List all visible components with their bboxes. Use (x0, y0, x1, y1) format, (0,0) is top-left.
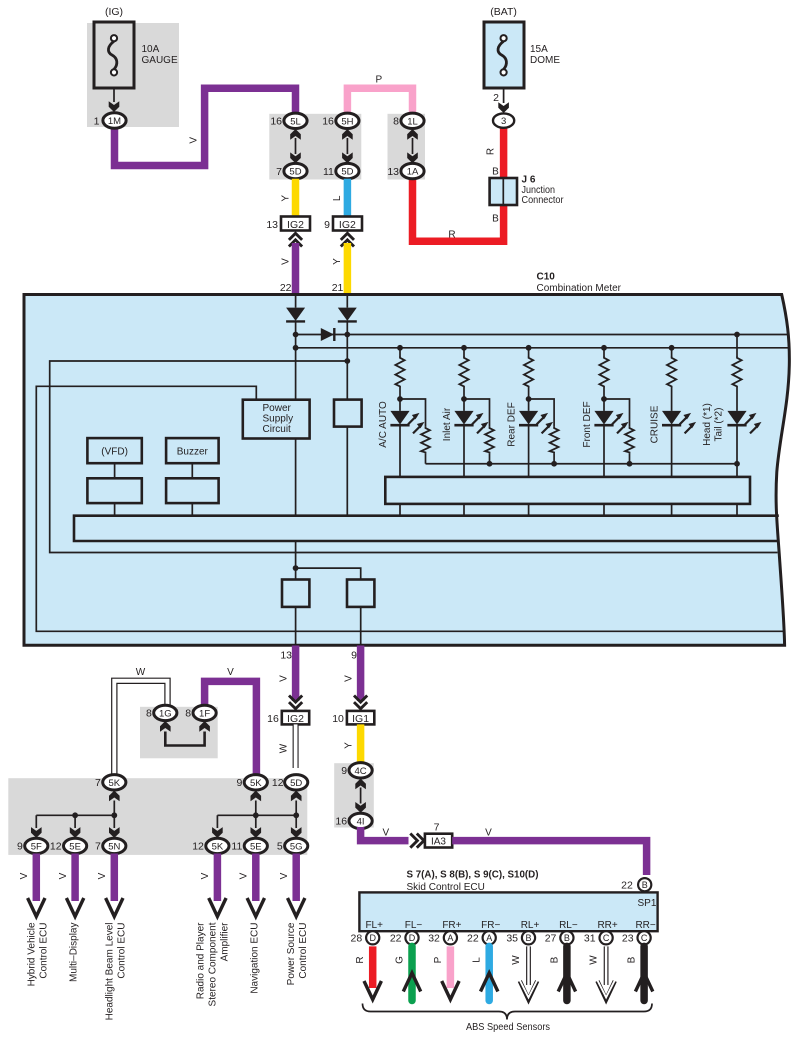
combination meter C10 body (24, 295, 789, 646)
wire W1 loop (50, 361, 778, 553)
svg-text:W: W (136, 667, 146, 678)
shunt resistor branch (400, 399, 426, 427)
svg-text:31: 31 (584, 933, 596, 945)
svg-text:10: 10 (332, 713, 344, 725)
svg-text:V: V (19, 872, 30, 879)
svg-text:W: W (279, 743, 290, 753)
svg-text:(VFD): (VFD) (101, 446, 128, 457)
wire V purple meter pin9 (357, 646, 365, 702)
wire buzzer to bus (191, 503, 193, 516)
svg-text:Combination Meter: Combination Meter (537, 283, 622, 294)
svg-text:Hybrid Vehicle: Hybrid Vehicle (26, 922, 37, 986)
svg-text:V: V (279, 675, 290, 682)
svg-text:V: V (280, 258, 291, 265)
bus line A with diode (296, 334, 788, 336)
svg-text:Y: Y (344, 742, 355, 749)
svg-text:5G: 5G (290, 841, 303, 852)
svg-text:B: B (642, 880, 648, 890)
main bus box (74, 516, 779, 541)
svg-text:13: 13 (387, 166, 399, 178)
svg-text:16: 16 (267, 713, 279, 725)
svg-text:V: V (344, 675, 355, 682)
connector 1F (193, 705, 216, 720)
LED Rear DEF (519, 411, 553, 434)
wire V purple 4I to IA3 (361, 827, 409, 841)
svg-text:5D: 5D (341, 167, 353, 178)
svg-text:D: D (409, 933, 416, 943)
Buzzer box (166, 438, 219, 463)
svg-text:B: B (627, 956, 638, 963)
svg-text:5H: 5H (341, 116, 353, 127)
svg-text:5E: 5E (250, 841, 262, 852)
svg-text:IG2: IG2 (339, 219, 356, 231)
wire V to Multi–Display (71, 854, 79, 902)
connector panel 4C/4I gray (334, 763, 374, 827)
svg-text:W: W (589, 955, 600, 965)
svg-text:V: V (279, 872, 290, 879)
connector 5L (284, 113, 307, 128)
svg-text:J 6: J 6 (522, 174, 536, 185)
svg-text:3: 3 (501, 116, 506, 127)
shunt resistor branch (604, 399, 630, 427)
wire VFD to bus (114, 503, 116, 516)
jumper wire 1G to 1F (165, 732, 204, 746)
double arrow 5H-5D (342, 129, 353, 140)
LED A/C AUTO (390, 411, 424, 434)
svg-text:V: V (189, 137, 200, 144)
svg-text:5K: 5K (108, 778, 120, 789)
svg-text:Power: Power (263, 403, 292, 414)
wire V to Headlight Beam Level (111, 854, 119, 902)
node col1 splice (293, 565, 299, 571)
svg-text:10A: 10A (142, 44, 160, 55)
svg-text:16: 16 (322, 116, 334, 128)
svg-text:B: B (549, 956, 560, 963)
wire V purple meter pin13 (292, 646, 300, 702)
wire L blue 5D to IG2 (344, 179, 352, 217)
svg-text:8: 8 (393, 116, 399, 128)
svg-text:V: V (58, 872, 69, 879)
wire splice to box b2 (296, 568, 361, 579)
wire W2 loop (36, 386, 784, 631)
svg-text:SP1: SP1 (638, 898, 657, 909)
svg-text:5L: 5L (290, 116, 301, 127)
svg-text:Stereo Component: Stereo Component (207, 922, 218, 1006)
lower-left wire V purple 1F to 5K (205, 681, 257, 776)
svg-text:C10: C10 (537, 272, 556, 283)
connector 1A (401, 163, 424, 178)
box on col2 (334, 400, 362, 427)
svg-text:Control ECU: Control ECU (298, 923, 309, 979)
svg-text:B: B (492, 167, 499, 178)
svg-text:D: D (369, 933, 376, 943)
wire col2 down to box (346, 321, 348, 400)
node shunt3 (551, 461, 557, 467)
svg-text:GAUGE: GAUGE (142, 55, 178, 66)
resistor Rear DEF (524, 356, 533, 388)
connector 5D pin11 (336, 163, 359, 178)
resistor Front DEF (599, 356, 608, 388)
wire R red DOME to 1A (413, 126, 504, 241)
svg-text:IG1: IG1 (352, 713, 369, 725)
svg-text:W: W (511, 955, 522, 965)
svg-text:V: V (382, 827, 389, 838)
wire P ABS sensor (447, 946, 455, 988)
wire W white IG2 to 5D (293, 724, 299, 768)
connector 5K pin7 (103, 775, 126, 790)
wire W ABS sensor (604, 946, 609, 985)
connector 5E pin12 (64, 838, 87, 853)
svg-text:RL+: RL+ (521, 920, 540, 931)
fuse 15A DOME (484, 6, 560, 88)
connector 1M (103, 113, 126, 128)
splice tree left (36, 801, 114, 829)
connector panel 5L/5H gray (269, 114, 361, 180)
svg-text:A: A (486, 933, 492, 943)
svg-text:1F: 1F (199, 708, 210, 719)
svg-text:IG2: IG2 (287, 219, 304, 231)
resistor Head (*1) (732, 356, 741, 388)
svg-text:R: R (448, 230, 455, 241)
wire V to Navigation ECU (252, 854, 260, 902)
junction IG2 pin16 (282, 711, 309, 725)
diode D3 horizontal (321, 328, 334, 341)
node return-head (734, 461, 740, 467)
svg-text:C: C (641, 933, 648, 943)
double arrow 5L-5D (290, 129, 301, 140)
svg-text:5K: 5K (212, 841, 224, 852)
svg-text:FR−: FR− (481, 920, 500, 931)
wire G ABS sensor (408, 946, 416, 1000)
wire Y yellow 5D to IG2 (292, 179, 300, 217)
svg-text:B: B (492, 214, 499, 225)
svg-text:Circuit: Circuit (263, 424, 292, 435)
connector 4I (349, 813, 372, 828)
illumination return line (426, 463, 738, 465)
svg-text:IA3: IA3 (431, 837, 446, 848)
svg-text:9: 9 (324, 219, 330, 231)
svg-text:1M: 1M (108, 116, 121, 127)
wire col1 PSC to bus (295, 439, 297, 516)
svg-text:Supply: Supply (263, 414, 294, 425)
connector 5D pin12 (285, 775, 308, 790)
svg-text:R: R (486, 148, 497, 155)
arrows into bottom connectors (31, 827, 42, 838)
svg-text:1G: 1G (159, 708, 172, 719)
indicator CRUISE column (669, 345, 675, 351)
svg-text:16: 16 (335, 816, 347, 828)
node col1-lineA (293, 332, 299, 338)
double arrow 1L-1A (407, 129, 418, 140)
svg-text:ABS Speed Sensors: ABS Speed Sensors (466, 1021, 550, 1033)
svg-text:Y: Y (280, 195, 291, 202)
power supply circuit box (243, 400, 310, 439)
wire Y yellow into meter pin21 (344, 243, 352, 296)
diode D1 at pin22 (286, 308, 305, 321)
svg-text:V: V (485, 827, 492, 838)
wire col22 into diode (295, 296, 297, 308)
relay block panel gray (8, 778, 307, 855)
connector 5F (25, 838, 48, 853)
svg-text:IG2: IG2 (287, 713, 304, 725)
svg-text:Y: Y (332, 258, 343, 265)
shunt resistor branch (464, 399, 490, 427)
double chevron below IG2 pin9 (341, 233, 354, 246)
svg-text:4I: 4I (357, 816, 365, 827)
svg-text:22: 22 (390, 933, 402, 945)
svg-text:32: 32 (428, 933, 440, 945)
wire V purple into meter pin22 (292, 243, 300, 296)
LED Inlet Air (454, 411, 488, 434)
svg-text:B: B (525, 933, 531, 943)
connector 5K pin9 (244, 775, 267, 790)
svg-text:13: 13 (280, 650, 292, 662)
svg-text:(BAT): (BAT) (490, 6, 517, 18)
LED bus box (385, 477, 750, 504)
svg-text:28: 28 (351, 933, 363, 945)
svg-text:13: 13 (266, 219, 278, 231)
double arrow 4C-4I (355, 779, 366, 790)
wire V purple IA3 to skid ECU (452, 841, 646, 875)
svg-text:12: 12 (272, 777, 284, 789)
lead from fuse to 1M (113, 88, 115, 102)
node col2-lineA (344, 332, 350, 338)
connector 5N (103, 838, 126, 853)
output box b2 (347, 580, 374, 607)
wire V to Hybrid Vehicle (33, 854, 41, 902)
resistor A/C AUTO (395, 356, 404, 388)
svg-text:7: 7 (95, 841, 101, 853)
node shunt4 (627, 461, 633, 467)
arrow into 3 (498, 102, 509, 113)
LED CRUISE (662, 411, 696, 434)
LED Front DEF (594, 411, 628, 434)
svg-text:1: 1 (94, 116, 100, 128)
svg-text:5: 5 (277, 841, 283, 853)
svg-text:CRUISE: CRUISE (650, 405, 661, 443)
svg-text:Amplifier: Amplifier (219, 922, 230, 962)
double chevron below IG2 pin13 (289, 233, 302, 246)
arrow into 1G (160, 721, 171, 732)
svg-text:22: 22 (280, 282, 292, 294)
shunt resistor branch (529, 399, 555, 427)
node col1-lineB (293, 345, 299, 351)
connector panel 1L/1A gray (388, 114, 426, 180)
svg-text:5E: 5E (69, 841, 81, 852)
junction IA3 pin7 (425, 834, 452, 848)
svg-text:5D: 5D (290, 778, 302, 789)
skid control ECU box (359, 892, 657, 931)
svg-text:8: 8 (146, 708, 152, 720)
diode D2 at pin21 (338, 308, 357, 321)
wire B ABS sensor (563, 946, 571, 1000)
svg-text:7: 7 (434, 821, 440, 833)
svg-text:Front DEF: Front DEF (582, 401, 593, 447)
svg-text:4C: 4C (355, 766, 367, 777)
svg-text:V: V (200, 872, 211, 879)
svg-text:Inlet Air: Inlet Air (442, 407, 453, 441)
svg-text:Control ECU: Control ECU (116, 923, 127, 979)
svg-text:G: G (395, 956, 406, 964)
svg-text:12: 12 (192, 841, 204, 853)
wire col2 box to bus (346, 427, 348, 516)
resistor CRUISE (667, 356, 676, 388)
svg-text:Headlight Beam Level: Headlight Beam Level (104, 923, 115, 1021)
node shunt2 (487, 461, 493, 467)
junction connector J6 (490, 174, 565, 206)
wire V to Power Source (292, 854, 300, 902)
svg-text:35: 35 (506, 933, 518, 945)
svg-text:15A: 15A (530, 44, 548, 55)
svg-text:23: 23 (622, 933, 634, 945)
svg-text:Radio and Player: Radio and Player (195, 922, 206, 999)
svg-text:11: 11 (323, 166, 334, 178)
svg-text:12: 12 (50, 841, 62, 853)
arrow into 1M (109, 101, 120, 112)
svg-text:Rear DEF: Rear DEF (507, 402, 518, 446)
svg-text:L: L (332, 195, 343, 201)
svg-text:A/C AUTO: A/C AUTO (378, 401, 389, 448)
indicator Rear DEF column (526, 345, 532, 351)
svg-text:FR+: FR+ (442, 920, 461, 931)
node col2-W1 (344, 358, 350, 364)
indicator Inlet Air column (461, 345, 467, 351)
svg-text:9: 9 (17, 841, 23, 853)
svg-text:5F: 5F (31, 841, 42, 852)
svg-text:Navigation ECU: Navigation ECU (249, 923, 260, 994)
double chevron into IA3 (410, 834, 424, 848)
wire B ABS sensor (640, 946, 648, 1000)
wire Y yellow IG1 to 4C (357, 724, 365, 764)
fusebox panel (IG) gray (87, 23, 179, 127)
lead from DOME fuse (503, 88, 505, 103)
svg-text:7: 7 (276, 166, 282, 178)
bus line B (296, 347, 789, 349)
svg-text:9: 9 (236, 777, 242, 789)
svg-text:V: V (97, 872, 108, 879)
splice tree right (217, 801, 296, 829)
svg-text:C: C (603, 933, 610, 943)
lower-left wire W white 5K to 1G (114, 681, 167, 776)
svg-text:5N: 5N (108, 841, 120, 852)
resistor Inlet Air (459, 356, 468, 388)
svg-text:V: V (239, 872, 250, 879)
svg-text:7: 7 (95, 777, 101, 789)
svg-text:Multi–Display: Multi–Display (69, 923, 80, 982)
wire col1 below bus (295, 541, 297, 580)
stubs to main bus (400, 504, 737, 516)
wire R ABS sensor (369, 946, 377, 988)
wire col21 into diode (346, 296, 348, 308)
svg-text:1A: 1A (407, 167, 419, 178)
svg-text:A: A (447, 933, 453, 943)
connector 1G (154, 705, 177, 720)
junction IG2 pin13 (281, 217, 310, 231)
svg-text:DOME: DOME (530, 55, 560, 66)
svg-text:5K: 5K (250, 778, 262, 789)
svg-text:22: 22 (467, 933, 479, 945)
svg-text:P: P (375, 75, 382, 86)
double chevron into IG2 (289, 696, 302, 709)
connector 5G (285, 838, 308, 853)
wire b1 to pin13 (295, 607, 297, 645)
VFD box (87, 438, 141, 463)
indicator Front DEF column (601, 345, 607, 351)
svg-text:Buzzer: Buzzer (177, 446, 209, 457)
svg-text:Head (*1): Head (*1) (702, 403, 713, 446)
svg-text:(IG): (IG) (105, 6, 123, 18)
svg-text:RL−: RL− (559, 920, 578, 931)
junction IG1 pin10 (347, 711, 374, 725)
connector 3 (493, 113, 514, 127)
svg-text:Tail (*2): Tail (*2) (714, 408, 725, 442)
wire b2 to pin9 (360, 607, 362, 645)
svg-text:16: 16 (270, 116, 282, 128)
wire V purple 1M to 5L (115, 88, 296, 165)
svg-text:21: 21 (332, 282, 344, 294)
svg-text:RR−: RR− (635, 920, 655, 931)
svg-text:FL−: FL− (405, 920, 423, 931)
connector 4C (349, 763, 372, 778)
svg-text:9: 9 (351, 650, 357, 662)
svg-text:9: 9 (341, 765, 347, 777)
indicator A/C AUTO column (397, 345, 403, 351)
svg-text:Connector: Connector (522, 195, 565, 206)
wire V to Radio and Player (214, 854, 222, 902)
double chevron into IG1 (354, 696, 367, 709)
connector 5E pin11 (244, 838, 267, 853)
svg-text:8: 8 (185, 708, 191, 720)
junction IG2 pin9 (333, 217, 362, 231)
connector 5D pin7 (284, 163, 307, 178)
svg-text:FL+: FL+ (365, 920, 383, 931)
connector 5H (336, 113, 359, 128)
VFD driver box (87, 478, 141, 503)
svg-text:11: 11 (231, 841, 242, 853)
connector 5K pin12 (206, 838, 229, 853)
svg-text:22: 22 (621, 880, 633, 892)
svg-text:B: B (564, 933, 570, 943)
wire col1 down to power supply circuit (295, 321, 297, 400)
svg-text:S 7(A), S 8(B), S 9(C), S10(D): S 7(A), S 8(B), S 9(C), S10(D) (407, 869, 539, 880)
svg-text:1L: 1L (407, 116, 418, 127)
svg-text:P: P (433, 956, 444, 963)
svg-text:Skid Control ECU: Skid Control ECU (407, 882, 485, 893)
svg-text:27: 27 (545, 933, 557, 945)
Buzzer driver box (166, 478, 219, 503)
connector 1L (401, 113, 424, 128)
wire L ABS sensor (485, 946, 493, 1000)
svg-text:Power Source: Power Source (286, 922, 297, 985)
fuse 10A GAUGE (94, 6, 178, 88)
arrows below top connectors (109, 791, 120, 802)
connector panel 1G/1F gray (140, 707, 218, 759)
LED Head (*1) (727, 411, 761, 434)
svg-text:Control ECU: Control ECU (38, 923, 49, 979)
wire P pink 5H to 1L (347, 88, 412, 114)
svg-text:5D: 5D (289, 167, 301, 178)
arrow into 1F (199, 721, 210, 732)
output box b1 (282, 580, 309, 607)
indicator Head (*1) column (734, 332, 740, 338)
brace ABS speed sensors (363, 1004, 653, 1020)
svg-text:R: R (355, 956, 366, 963)
svg-text:RR+: RR+ (597, 920, 617, 931)
svg-text:V: V (227, 667, 234, 678)
wire W ABS sensor (526, 946, 531, 985)
svg-text:2: 2 (493, 92, 499, 104)
svg-text:L: L (472, 957, 483, 963)
